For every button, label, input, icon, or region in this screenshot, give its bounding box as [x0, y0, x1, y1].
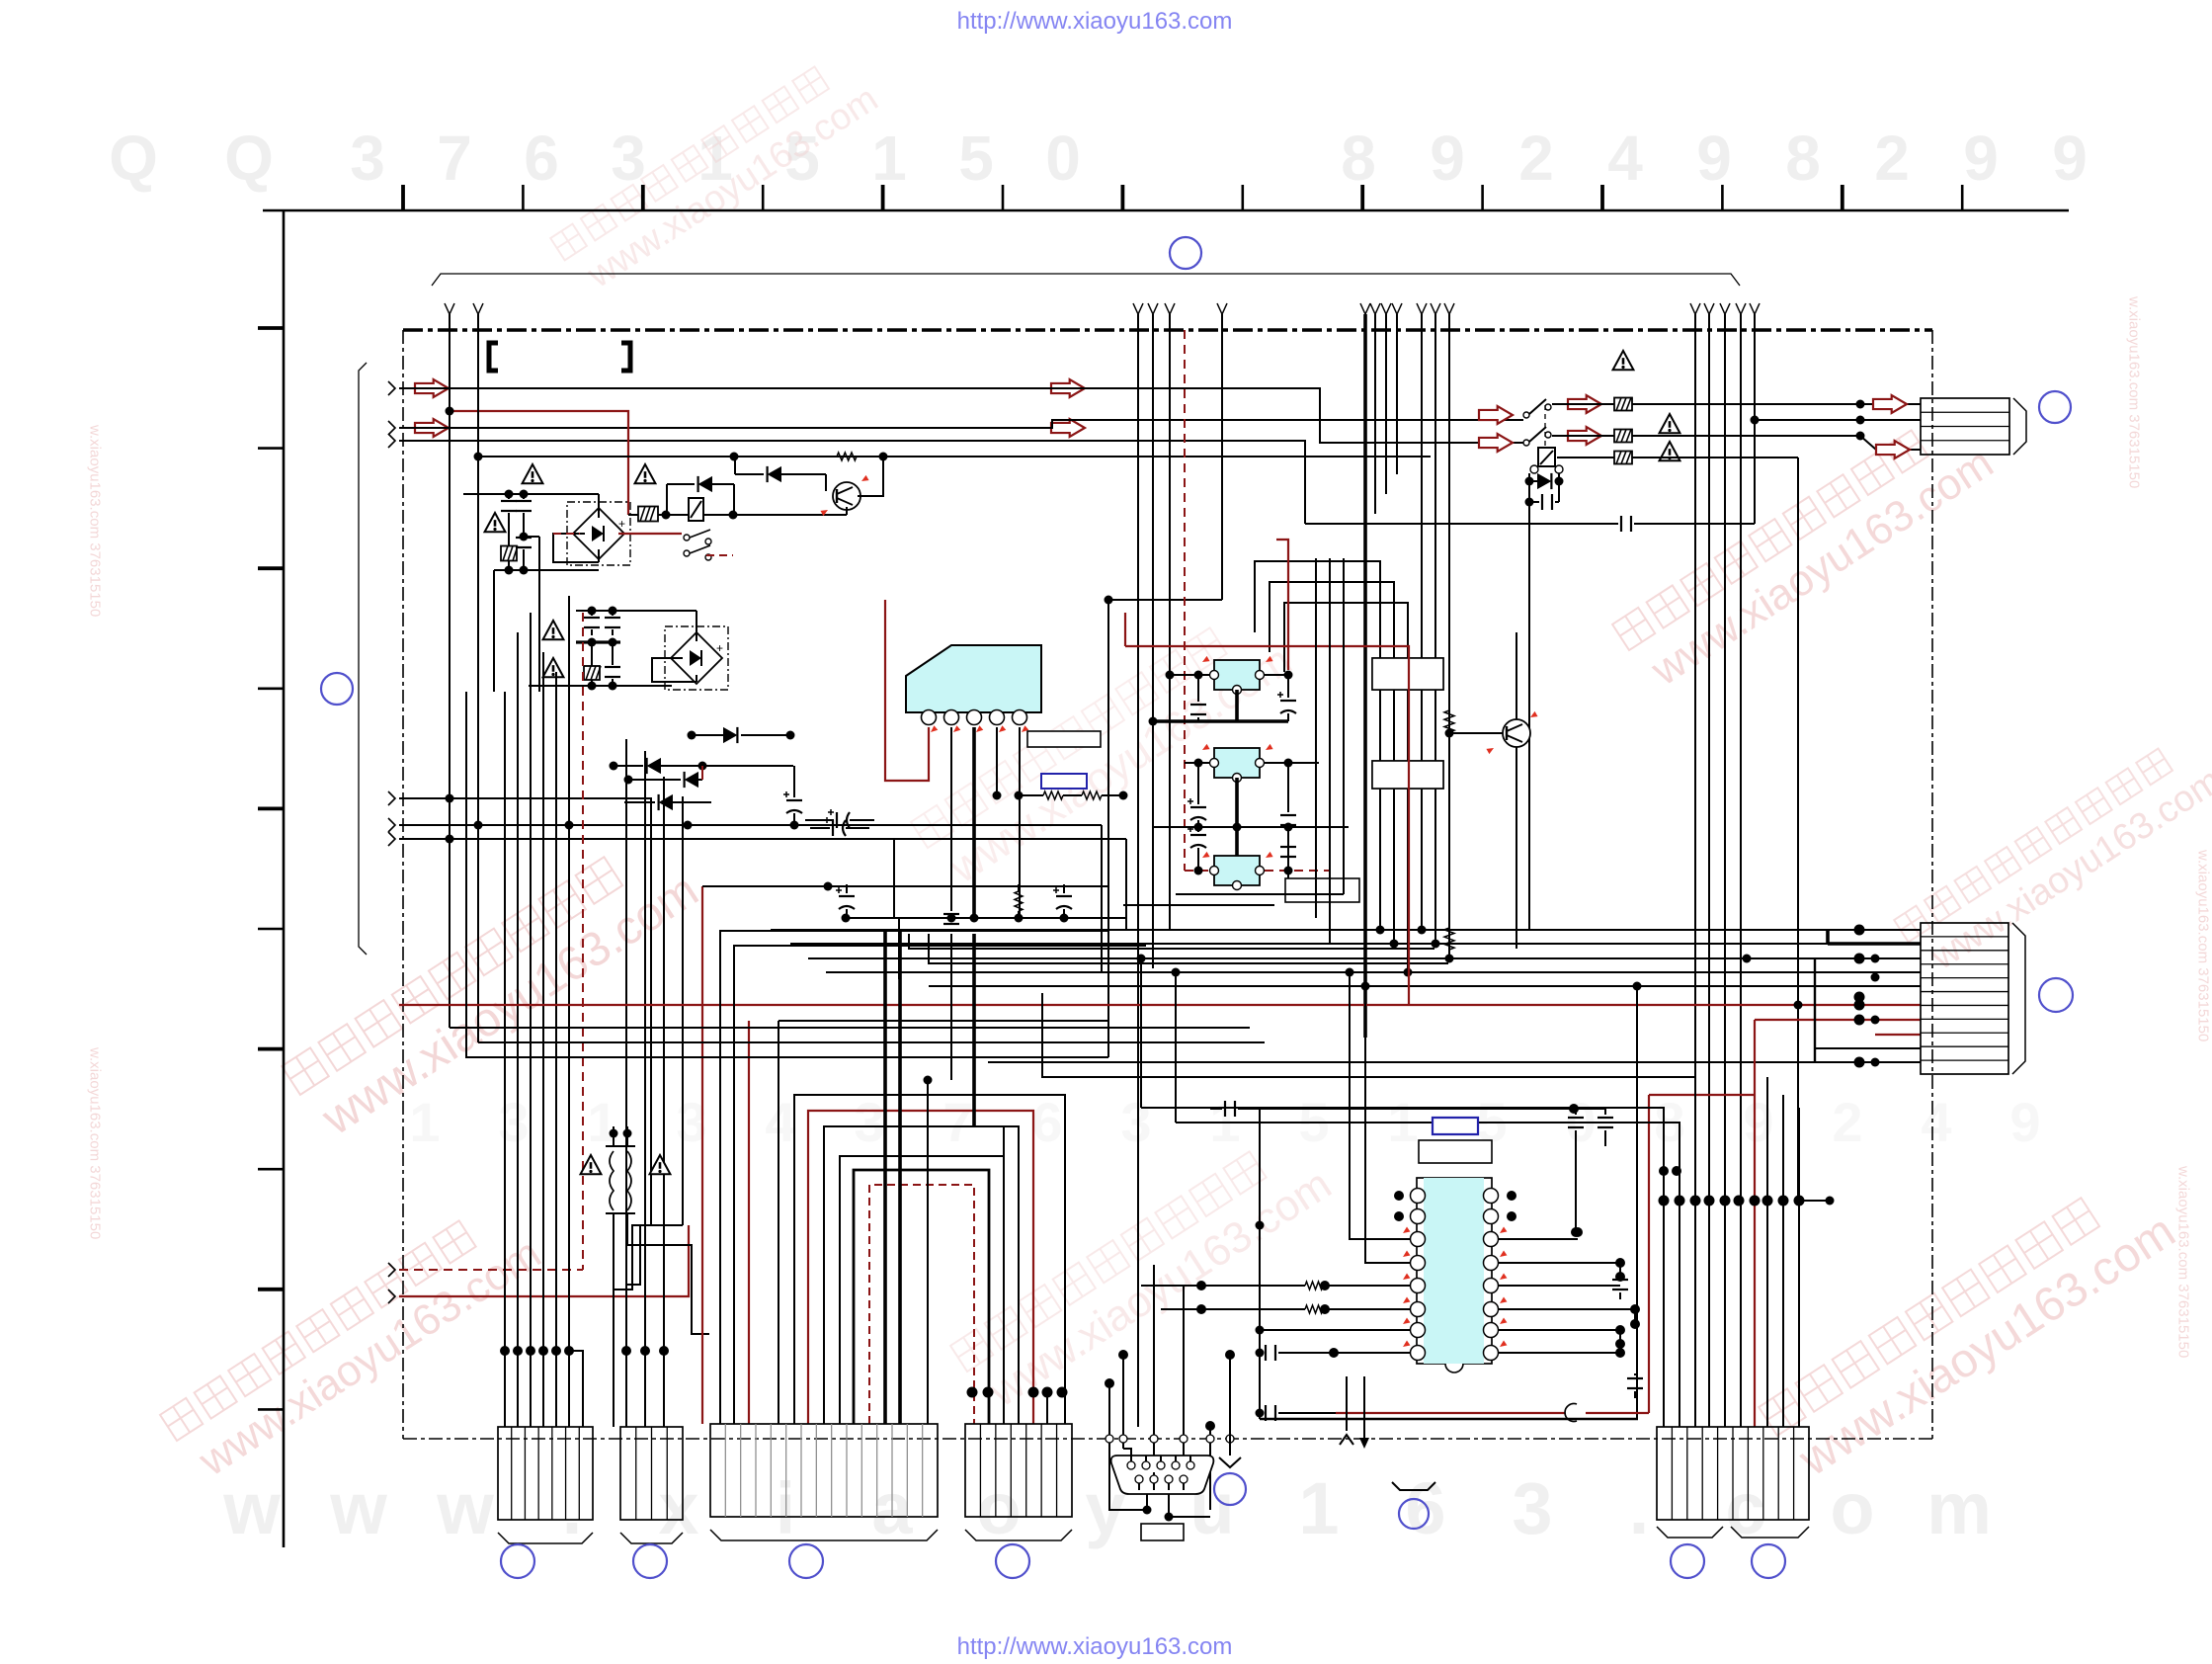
- wire c7: [810, 827, 830, 829]
- block title brackets: [489, 343, 498, 371]
- red dashed h: [1185, 870, 1209, 872]
- ref circle CN101: [2039, 391, 2071, 423]
- wire db9 frame3: [1169, 1479, 1210, 1517]
- regulator U2: [1214, 660, 1260, 690]
- junction: [1615, 1348, 1625, 1358]
- svg-text:4: 4: [1921, 1091, 1951, 1153]
- wire relay out: [703, 514, 847, 516]
- label box blue U5: [1433, 1118, 1478, 1134]
- capacitor C3: [584, 618, 600, 627]
- wire mid 1: [399, 798, 651, 1290]
- wire q2 emit: [1516, 747, 1517, 949]
- wire db9 v3: [1153, 1265, 1155, 1472]
- wire loop2: [1270, 582, 1394, 944]
- wire cne h3: [1195, 1077, 1695, 1201]
- signal arrow A2c: [1051, 419, 1085, 437]
- warning triangle W9: [1660, 414, 1680, 433]
- inductor L1: [610, 1151, 614, 1210]
- wire y835 drop: [1101, 825, 1103, 972]
- wire filter top: [463, 493, 599, 495]
- ref circle CN105a: [1671, 1544, 1704, 1578]
- ref circle CN203: [789, 1544, 823, 1578]
- wire center h1: [1176, 893, 1344, 895]
- IC U5 pin R2: [1484, 1209, 1499, 1224]
- wire red stub 546: [1276, 540, 1288, 670]
- wire lh3: [466, 692, 1108, 1057]
- capacitor C11: [836, 887, 855, 909]
- wire cne verticals: [1663, 1201, 1665, 1427]
- ref circle CN201: [501, 1544, 534, 1578]
- wire d1 loop: [553, 534, 599, 562]
- wire rnet: [1019, 794, 1043, 796]
- IC U5 pin R1: [1484, 1189, 1499, 1204]
- wire cnc v3: [883, 929, 887, 1424]
- capacitor C1: [501, 501, 517, 511]
- svg-text:o: o: [976, 1467, 1021, 1549]
- svg-text:3: 3: [498, 1091, 529, 1153]
- riser T4 bends: [1418, 926, 1427, 935]
- node entries mid: [388, 791, 395, 805]
- junction: [1794, 1001, 1803, 1010]
- IC U1: [906, 645, 1041, 712]
- diode D5: [723, 727, 737, 743]
- wire v1776: [1754, 314, 1756, 524]
- junction: [1194, 759, 1203, 768]
- junction: [1105, 596, 1113, 605]
- wire red u5: [1336, 1412, 1565, 1414]
- wire center v1: [1315, 558, 1317, 918]
- capacitor C13: [1190, 705, 1206, 714]
- wire mid h y1090: [1042, 993, 1664, 1077]
- capacitor C14: [1277, 692, 1296, 713]
- capacitor C22: [1598, 1118, 1613, 1127]
- wire u5 l6: [1325, 1308, 1411, 1310]
- connector CN101: [1921, 398, 2009, 455]
- ref circle G2: [1399, 1499, 1429, 1529]
- junction: [1256, 1349, 1265, 1358]
- riser V2: [477, 314, 479, 1042]
- wire U-loop 1: [794, 1095, 1065, 1424]
- node entries low: [388, 1263, 395, 1277]
- junction: [842, 914, 851, 923]
- svg-text:w.xiaoyu163.com 376315150: w.xiaoyu163.com 376315150: [2175, 1165, 2192, 1358]
- wire loop3: [1284, 603, 1408, 972]
- svg-text:4: 4: [765, 1091, 795, 1153]
- wire u1 red left: [885, 600, 929, 781]
- junction: [564, 1346, 574, 1356]
- svg-text:3: 3: [350, 123, 385, 194]
- wire rm rows2: [929, 985, 1921, 987]
- svg-text:m: m: [1926, 1467, 1992, 1549]
- connector CN105: [1657, 1427, 1809, 1520]
- svg-text:o: o: [1830, 1467, 1874, 1549]
- IC U1 pin 1: [922, 710, 937, 725]
- svg-text:w.xiaoyu163.com 376315150: w.xiaoyu163.com 376315150: [2126, 295, 2143, 488]
- wire u1 pin4: [996, 727, 998, 795]
- signal arrow A2: [415, 419, 449, 437]
- resistor R2: [638, 507, 658, 522]
- junction extra: [1794, 1196, 1805, 1206]
- capacitor C17: [1280, 815, 1296, 825]
- svg-text:w: w: [436, 1467, 494, 1549]
- capacitor C23: [1266, 1345, 1275, 1361]
- IC U5 pin R3: [1484, 1232, 1499, 1247]
- CN301 pin 5: [1187, 1461, 1194, 1469]
- junction: [1445, 729, 1454, 738]
- wire u5 r4: [1498, 1263, 1620, 1275]
- wire reg midbus: [1154, 826, 1349, 828]
- wire d4 top: [647, 610, 696, 612]
- red dashed riser: [1184, 330, 1186, 871]
- ref circle CN102: [2039, 978, 2073, 1012]
- svg-text:w: w: [329, 1467, 387, 1549]
- wire cnc v4: [927, 1080, 929, 1424]
- svg-text:9: 9: [2009, 1091, 2040, 1153]
- wire lh1: [450, 1027, 1250, 1029]
- warning triangle W5: [543, 658, 564, 677]
- IC U5 body: [1417, 1178, 1492, 1364]
- wire db9 jog2: [1153, 1472, 1155, 1475]
- junction row CNA: [500, 1346, 510, 1356]
- junction: [1143, 1506, 1152, 1515]
- wire center h2: [1123, 904, 1274, 906]
- label box N2: [1372, 761, 1443, 789]
- IC U5 pin L8: [1411, 1346, 1426, 1361]
- power supply block boundary (bottom): [403, 1438, 1932, 1440]
- switch SW1b: [684, 545, 711, 560]
- wire c21: [1574, 1108, 1605, 1110]
- ground bus y929: [846, 917, 1126, 919]
- IC U5 pin L3: [1411, 1232, 1426, 1247]
- pin tick: [1401, 1318, 1410, 1327]
- wire mid h y1136: [1175, 972, 1177, 1123]
- wire sw out 1: [1632, 403, 1921, 405]
- wire lh4: [909, 934, 1434, 949]
- warning triangle W8: [1613, 351, 1634, 370]
- capacitor C8: [1542, 494, 1552, 510]
- wire u5 r6: [1498, 1309, 1635, 1324]
- connector CN204: [965, 1424, 1072, 1517]
- wire db9 frame2: [1146, 1479, 1148, 1510]
- wire lh7: [899, 918, 901, 978]
- wire q1 emit: [846, 507, 848, 515]
- junction: [1630, 1304, 1640, 1314]
- svg-text:9: 9: [1430, 123, 1465, 194]
- svg-text:7: 7: [437, 123, 472, 194]
- wire red riser 1139: [1124, 613, 1126, 646]
- svg-text:9: 9: [1743, 1091, 1773, 1153]
- wire red vert 1669: [1648, 1095, 1650, 1413]
- wire u5 l5: [1325, 1285, 1411, 1287]
- wire red main: [450, 1004, 1921, 1006]
- diode D7: [685, 772, 698, 788]
- wire db9 v2: [1122, 1355, 1124, 1449]
- junction: [1615, 1325, 1625, 1335]
- svg-text:Q: Q: [109, 123, 158, 194]
- ground G1: [1229, 1355, 1231, 1456]
- connector CN105 bracket L: [1657, 1527, 1723, 1538]
- wire u5 l8: [1334, 1352, 1411, 1354]
- warning triangle W7: [650, 1155, 671, 1174]
- svg-text:1: 1: [1298, 1467, 1339, 1549]
- regulator U4: [1214, 856, 1260, 885]
- signal arrow A2b: [1051, 379, 1085, 397]
- wire center v3: [1343, 558, 1345, 894]
- junction: [610, 1129, 618, 1138]
- signal arrow A6: [1876, 441, 1910, 458]
- wire d4 loop: [652, 658, 696, 682]
- wire u5 r5: [1498, 1285, 1620, 1287]
- junction row CNB: [621, 1346, 631, 1356]
- diode D9: [1537, 473, 1551, 489]
- capacitor C12: [1053, 887, 1072, 909]
- riser bundle T5: [1694, 314, 1696, 1201]
- IC U5 pin L5: [1411, 1279, 1426, 1293]
- wire u5 l3: [1350, 972, 1411, 1239]
- wire cnc h: [778, 1020, 1108, 1022]
- diode D6: [647, 758, 661, 774]
- svg-text:0: 0: [1045, 123, 1081, 194]
- label box blue: [1041, 774, 1087, 789]
- capacitor C20: [1225, 1101, 1235, 1117]
- capacitor C18: [1280, 847, 1296, 857]
- pin tick: [1401, 1227, 1410, 1236]
- bridge rectifier D4: [665, 626, 728, 690]
- wire rm row3: [1875, 1034, 1921, 1036]
- CN301 pin 7: [1150, 1475, 1158, 1483]
- wire mid h y1121: [1140, 958, 1142, 1108]
- wire u5 l6b: [1161, 1308, 1305, 1310]
- IC U5 pin R7: [1484, 1323, 1499, 1338]
- relay RY1: [689, 498, 703, 521]
- junction: [924, 1076, 933, 1085]
- junction: [1615, 1258, 1625, 1268]
- label box N3: [1285, 878, 1359, 902]
- inductor L2: [627, 1151, 631, 1210]
- svg-text:Q: Q: [224, 123, 274, 194]
- svg-text:6: 6: [1405, 1467, 1445, 1549]
- wire rm rows3: [1815, 1047, 1921, 1049]
- capacitor C10: [943, 914, 959, 924]
- junction: [1376, 926, 1385, 935]
- wire cne stub: [1799, 1200, 1830, 1202]
- IC U5 pin L4: [1411, 1256, 1426, 1271]
- wire filter drop: [493, 570, 495, 692]
- wire jog: [569, 1351, 583, 1427]
- wire cne vert up: [1766, 1077, 1768, 1201]
- wire v1548: [1528, 524, 1530, 930]
- connector CN203: [710, 1424, 938, 1517]
- wire u2 bot: [1235, 690, 1239, 721]
- junction: [1284, 671, 1293, 680]
- IC U5 pin R5: [1484, 1279, 1499, 1293]
- open circles dashdot: [1106, 1435, 1113, 1443]
- ref circle CN105b: [1752, 1544, 1785, 1578]
- wire long y530: [1305, 523, 1618, 525]
- svg-text:7: 7: [942, 1091, 973, 1153]
- svg-text:2: 2: [1518, 123, 1554, 194]
- wire l2 route: [627, 1245, 709, 1334]
- warning triangle W6: [581, 1155, 602, 1174]
- wire u1 pin3 thick: [972, 727, 976, 918]
- wire u3 right: [1264, 762, 1319, 764]
- wire u1 down1: [950, 934, 952, 1080]
- svg-text:w.xiaoyu163.com 376315150: w.xiaoyu163.com 376315150: [87, 1046, 104, 1239]
- capacitor C9: [1621, 516, 1631, 532]
- svg-text:http://www.xiaoyu163.com: http://www.xiaoyu163.com: [957, 8, 1233, 35]
- wire U-loop 2: [808, 1111, 1033, 1424]
- svg-text:3: 3: [611, 123, 646, 194]
- pin tick: [1401, 1341, 1410, 1350]
- svg-text:8: 8: [1341, 123, 1376, 194]
- diode D8: [659, 794, 673, 810]
- svg-text:8: 8: [1785, 123, 1821, 194]
- wire bus top 3: [399, 441, 1305, 524]
- capacitor C7: [824, 817, 846, 836]
- warning triangle W3: [485, 513, 506, 532]
- resistor R5: [1614, 398, 1632, 411]
- ref circle left: [321, 673, 353, 705]
- wire U-loop 3: [824, 1126, 1019, 1424]
- wire bank2 bot: [529, 685, 672, 687]
- CN301 pin 9: [1180, 1475, 1188, 1483]
- wire bundle left-A: [504, 692, 506, 1427]
- riser bundle T3: [1374, 314, 1376, 514]
- wire top brace: [432, 274, 1740, 286]
- wire sw out 3: [1632, 457, 1798, 458]
- wire lh6: [399, 1004, 450, 1006]
- power supply block boundary (left): [402, 330, 404, 1439]
- connector CN203 bracket: [710, 1530, 938, 1540]
- junction U5 pins: [1394, 1191, 1404, 1201]
- capacitor C6: [828, 809, 850, 828]
- label box N2 (redraw): [1372, 761, 1443, 789]
- wire cne h2: [1176, 1123, 1679, 1201]
- connector CN105 bracket R: [1731, 1527, 1809, 1538]
- capacitor C6b: [783, 791, 802, 813]
- ref circle CN202: [633, 1544, 667, 1578]
- junction: [1573, 1227, 1583, 1237]
- wire rm verticals: [1814, 958, 1816, 1062]
- svg-text:5: 5: [958, 123, 994, 194]
- resistor R3: [837, 453, 857, 460]
- connector CN204 bracket: [965, 1530, 1072, 1540]
- junction row CND: [967, 1387, 978, 1398]
- CN301 pin 6: [1135, 1475, 1143, 1483]
- ground G2: [1392, 1482, 1435, 1490]
- wire bus top 2: [399, 420, 1523, 428]
- svg-text:9: 9: [1963, 123, 1999, 194]
- wire cnd v extra: [1046, 1392, 1048, 1424]
- svg-text:3: 3: [1512, 1467, 1552, 1549]
- capacitor C2: [516, 501, 532, 511]
- resistor R6: [1614, 430, 1632, 443]
- wire u2 right: [1264, 674, 1288, 676]
- no-connect arc: [1565, 1404, 1577, 1422]
- transistor Q2: [1503, 719, 1530, 747]
- wire red left loop: [1649, 1094, 1755, 1096]
- wire center v2: [1329, 558, 1331, 944]
- svg-text:6: 6: [524, 123, 559, 194]
- wire mid 2: [399, 824, 1102, 826]
- capacitor C4: [605, 618, 620, 627]
- wire filter bus: [494, 569, 599, 571]
- wire u3 bot thick: [1235, 778, 1239, 856]
- signal arrow A5: [1873, 395, 1907, 413]
- svg-text:+: +: [618, 517, 625, 531]
- wire q2 base: [1449, 732, 1503, 734]
- CN301 pin 4: [1172, 1461, 1180, 1469]
- connector CN102: [1921, 923, 2008, 1074]
- wire u5 r7: [1498, 1330, 1620, 1344]
- connector CN301 (D-SUB 9): [1111, 1456, 1214, 1494]
- wire q2 coll: [1516, 632, 1517, 719]
- wire loop1: [1255, 561, 1380, 930]
- junction: [1166, 671, 1175, 680]
- connector CN101 bracket: [2013, 398, 2026, 455]
- IC U5 pin R8: [1484, 1346, 1499, 1361]
- wire U-loop 4: [840, 1156, 1004, 1424]
- riser thick T3a: [1363, 314, 1367, 1038]
- resistor R20: [1305, 1282, 1323, 1290]
- wire u5 r3: [1498, 1238, 1578, 1240]
- warning triangle W10: [1660, 442, 1680, 460]
- transistor Q1: [833, 482, 860, 510]
- junction: [1320, 1281, 1330, 1290]
- junction: [565, 821, 574, 830]
- wire db9 v5: [1209, 1426, 1211, 1510]
- ref circle CN204: [996, 1544, 1029, 1578]
- diode D3: [768, 466, 781, 482]
- capacitor C2b: [516, 538, 532, 547]
- label box N1: [1372, 658, 1443, 690]
- junction: [1194, 867, 1203, 875]
- riser V1: [449, 314, 451, 1028]
- IC U5 pin L7: [1411, 1323, 1426, 1338]
- wire red feed: [450, 411, 628, 515]
- mech link dashed: [1544, 405, 1546, 448]
- wire u5 r8: [1498, 1352, 1620, 1354]
- power supply block boundary (top): [403, 328, 1932, 331]
- wire u2 bus: [1153, 719, 1288, 723]
- wire u1 pin2: [950, 727, 952, 911]
- wire cne h1: [1141, 1108, 1664, 1201]
- switch SW1a: [684, 530, 711, 544]
- power supply block boundary (right): [1931, 330, 1933, 1439]
- wire cnd extra: [1003, 1126, 1005, 1424]
- IC U1 pin 4: [990, 710, 1005, 725]
- connector CN201: [498, 1427, 593, 1520]
- junction v1 tap: [446, 794, 454, 803]
- wire y849 drop: [1125, 839, 1127, 930]
- wire red rm down: [1754, 1020, 1756, 1427]
- IC U5 pin L2: [1411, 1209, 1426, 1224]
- resistor R11: [1082, 791, 1102, 799]
- resistor R13: [1444, 710, 1454, 732]
- wire d9 sides: [1528, 473, 1530, 524]
- junction row CNE: [1659, 1196, 1670, 1206]
- wire b4b: [626, 1225, 683, 1285]
- CN301 pin 3: [1157, 1461, 1165, 1469]
- svg-text:1: 1: [409, 1091, 440, 1153]
- resistor R7: [1614, 452, 1632, 464]
- warning triangle W1: [523, 464, 543, 483]
- riser bundle T2: [1137, 314, 1139, 1427]
- switch SW2a: [1523, 412, 1529, 418]
- diode D2: [698, 476, 712, 492]
- resistor R12: [1015, 891, 1023, 911]
- frame U5 bottom: [1260, 1418, 1638, 1421]
